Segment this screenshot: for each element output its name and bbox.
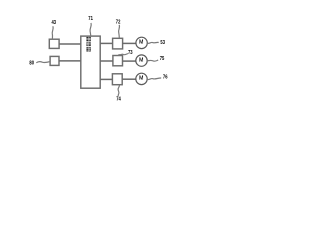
svg-text:71: 71 [88,16,93,22]
motor M1 [136,37,147,48]
wire box80 to U71 [59,60,81,62]
wire box43 to U71 [59,43,81,45]
label 53 [160,40,165,46]
svg-text:M: M [139,40,143,46]
label 74 [116,97,121,103]
svg-text:M: M [139,76,143,82]
label 72 [116,19,121,25]
leader 72 [118,25,121,38]
svg-text:73: 73 [128,50,133,56]
label 76 [163,74,168,80]
sensor block 80 [50,56,59,65]
leader 73 [118,54,128,55]
sensor block 43 [49,39,59,48]
label 43 [52,20,57,26]
motor M3 [136,73,147,84]
svg-text:76: 76 [163,74,168,80]
wire U71 to block73 [100,60,113,62]
svg-text:M: M [139,57,143,63]
leader 80 [36,62,50,63]
motor M2 [136,55,147,66]
wire block74 to motor M3 [122,78,136,80]
leader 53 [147,42,159,43]
label 75 [160,56,165,62]
wire U71 to block74 [100,78,112,80]
svg-text:75: 75 [160,56,165,62]
label 71 [88,16,93,22]
driver block 72 [113,38,123,49]
svg-text:43: 43 [52,20,57,26]
leader 71 [90,23,91,36]
svg-text:74: 74 [116,97,121,103]
driver block 73 [113,56,123,66]
wire U71 to block72 [100,42,112,44]
control unit U71 [81,36,100,88]
wire block73 to motor M2 [123,60,137,62]
label 73 [128,50,133,56]
leader 75 [147,60,158,61]
svg-text:72: 72 [116,19,121,25]
svg-text:53: 53 [160,40,165,46]
leader 74 [118,85,119,96]
leader 76 [147,78,161,80]
label 80 [29,60,34,66]
wire block72 to motor M1 [123,42,137,44]
vertical label 制御部 (kanji blobs) [86,37,90,52]
driver block 74 [112,74,122,85]
leader 43 [51,26,54,39]
svg-text:80: 80 [29,60,34,66]
